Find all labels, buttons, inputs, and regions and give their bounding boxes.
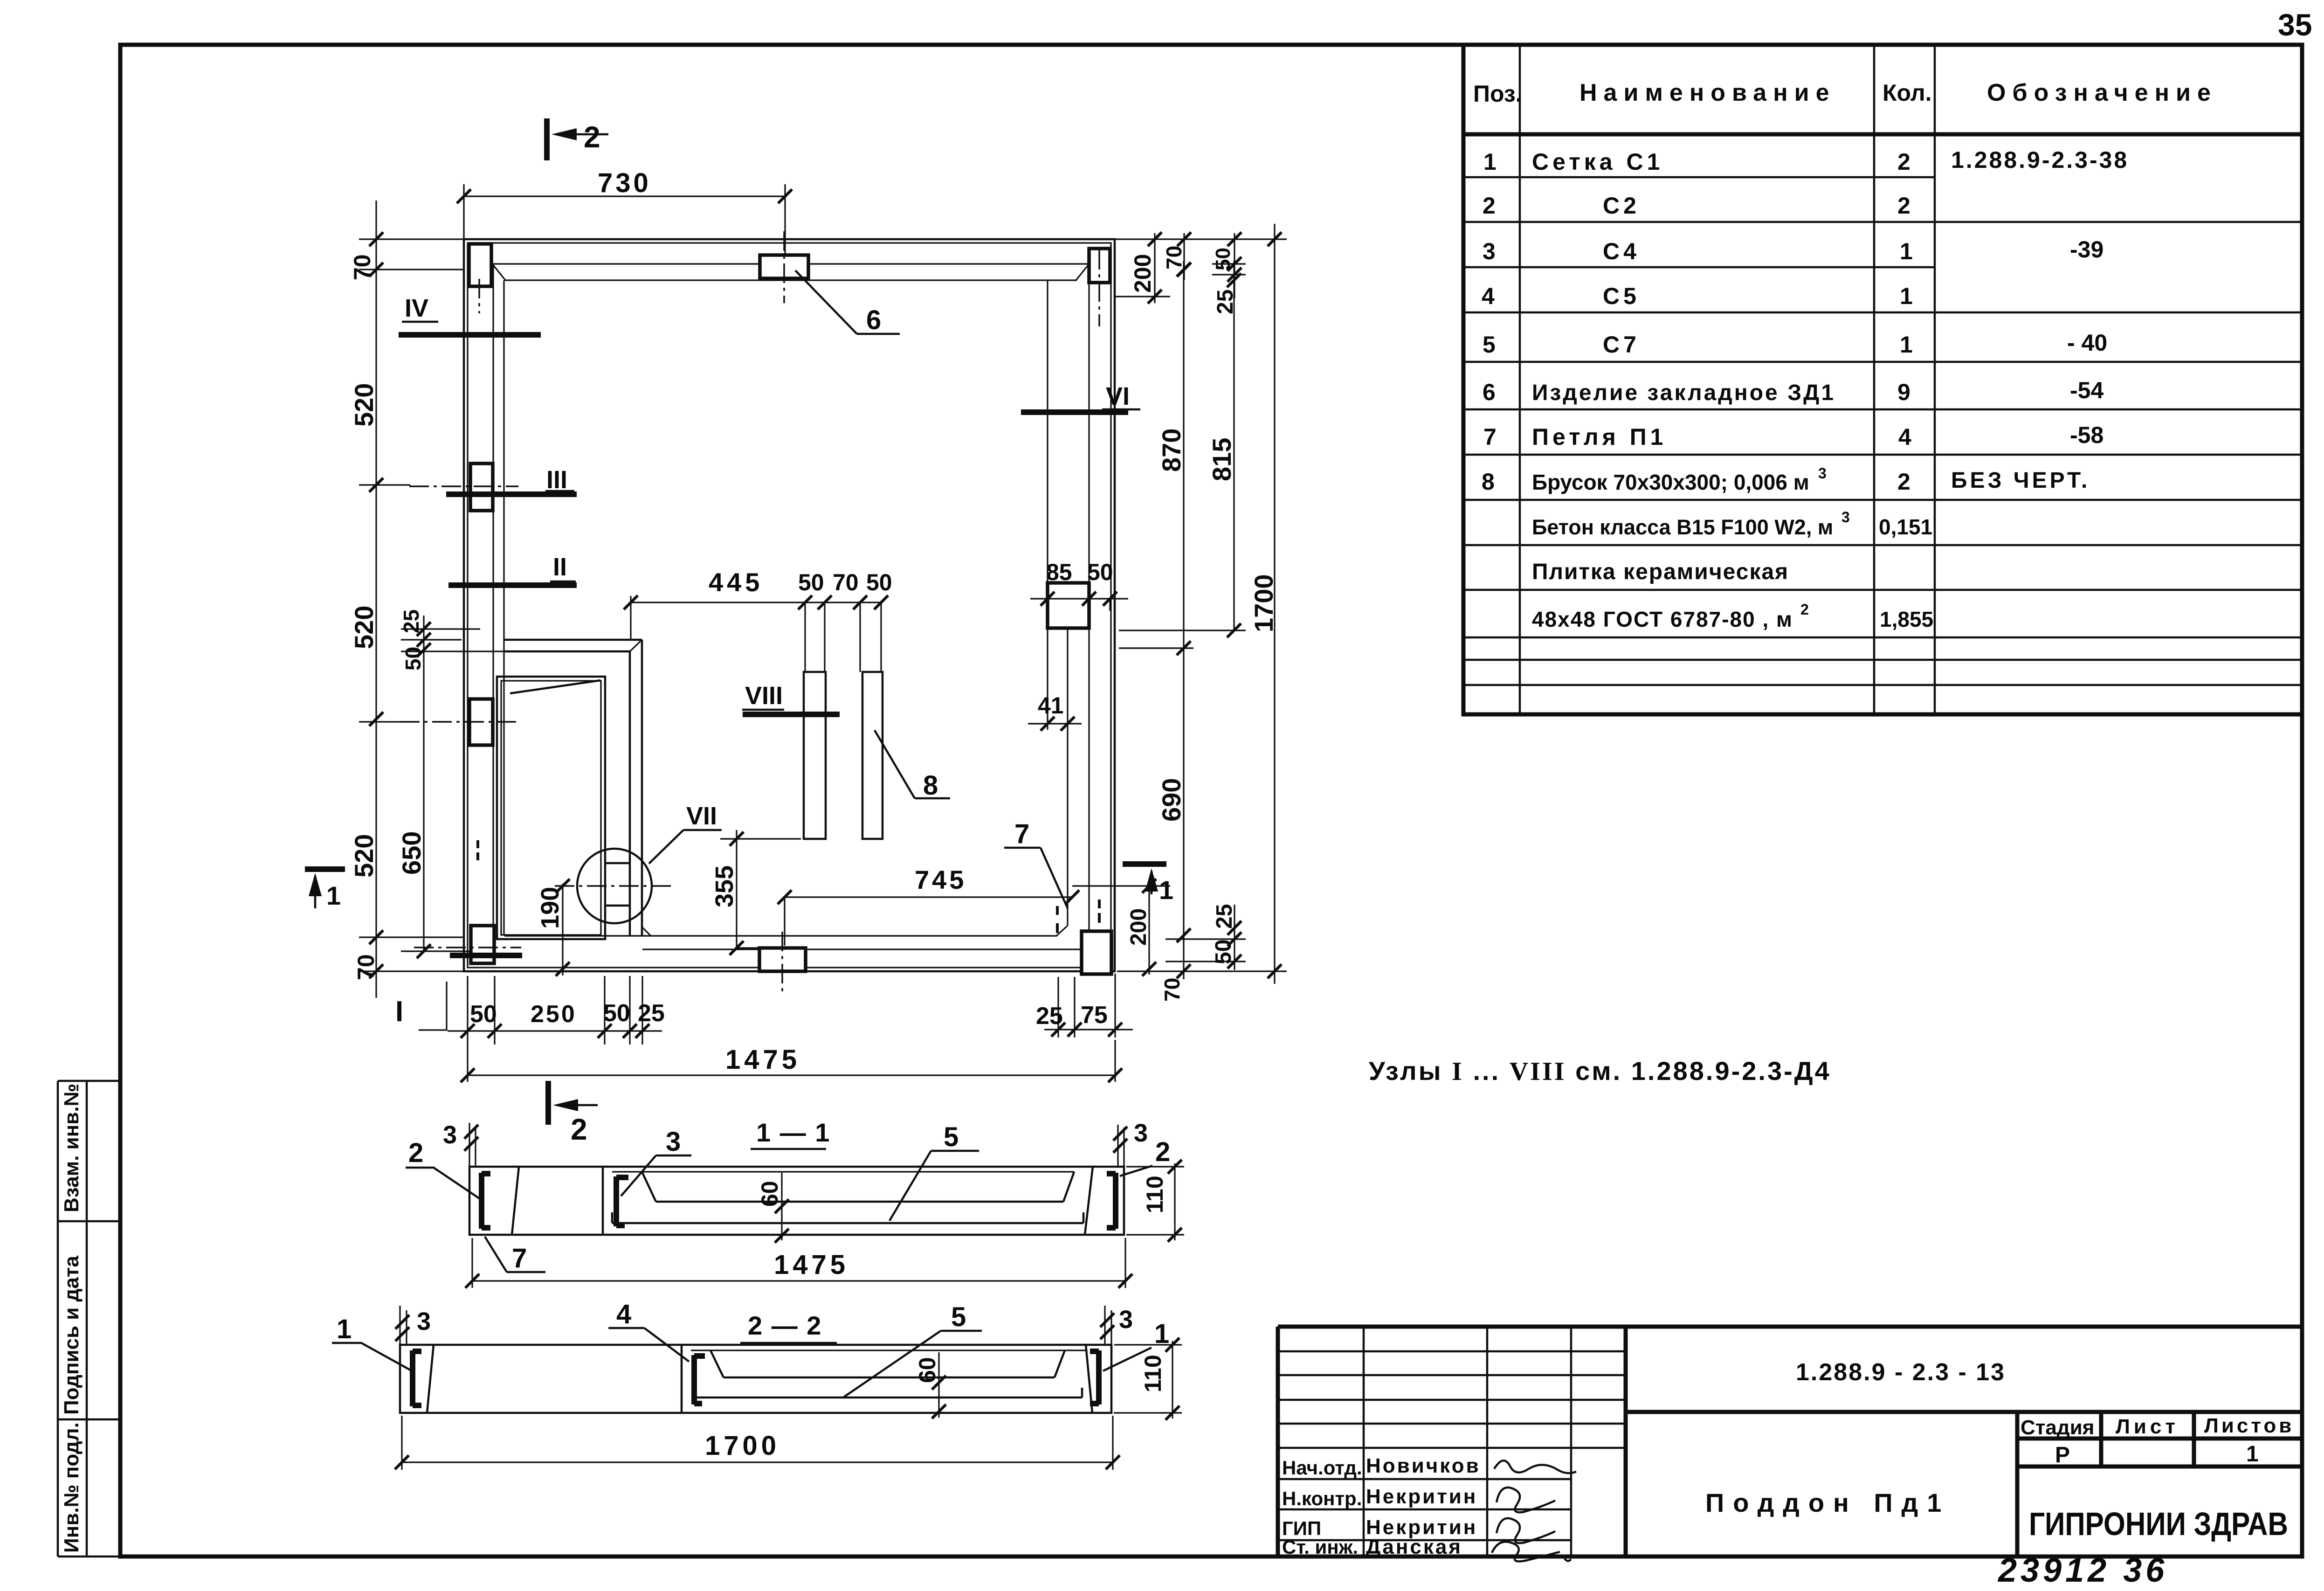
basin right chamfer 22 [1055, 1350, 1065, 1377]
svg-text:Нач.отд.: Нач.отд. [1282, 1457, 1362, 1479]
title block small table grid [1278, 1327, 1626, 1556]
svg-text:4: 4 [616, 1299, 631, 1329]
callout line VIII [743, 712, 840, 717]
section mark 2 top arrow [558, 133, 608, 136]
dim 1700 [1115, 224, 1287, 984]
NOTES [1369, 1056, 1831, 1086]
corner chamfer top-left [492, 264, 505, 280]
label 5 underline leader [890, 1151, 979, 1221]
svg-text:4: 4 [1898, 424, 1911, 450]
svg-text:25: 25 [399, 609, 423, 633]
wall outer face inner stroke [468, 243, 1111, 968]
svg-text:Плитка керамическая: Плитка керамическая [1532, 560, 1789, 584]
dim 85 50 right [1030, 583, 1128, 628]
svg-text:7: 7 [1014, 819, 1029, 849]
label 3 mid underline leader [621, 1155, 691, 1196]
loop P1 marks right wall [1056, 906, 1059, 933]
svg-text:С5: С5 [1603, 283, 1640, 309]
left end block slant [512, 1167, 519, 1235]
signature 4 [1492, 1542, 1571, 1561]
svg-text:С2: С2 [1603, 193, 1640, 219]
PLAN-DIMS [349, 168, 1287, 1082]
mesh C7 bottom line 22 [694, 1388, 1082, 1397]
svg-text:445: 445 [709, 567, 763, 597]
mid partition line [602, 1167, 604, 1235]
door frame inner [501, 681, 601, 935]
svg-text:I: I [395, 996, 403, 1028]
svg-text:110: 110 [1140, 1355, 1166, 1392]
basin right chamfer [1063, 1172, 1074, 1202]
svg-text:50: 50 [470, 1001, 497, 1028]
corner chamfer bottom-right [1056, 926, 1068, 936]
bottom wall rim line [642, 948, 1089, 950]
svg-text:50: 50 [1212, 248, 1234, 270]
label 5 underline leader 22 [844, 1331, 982, 1397]
dim 1700 sec22 [402, 1416, 1113, 1470]
stamp column box [58, 1081, 120, 1556]
leader 6 [795, 270, 857, 334]
center line through B9 [781, 932, 783, 994]
svg-text:- 40: - 40 [2067, 330, 2107, 356]
section mark 2 top bar [544, 118, 550, 160]
left chain ticks [369, 232, 383, 978]
top wall rim line [492, 263, 1089, 264]
basin left chamfer 22 [710, 1350, 724, 1377]
section mark 1 left bar [305, 866, 345, 872]
label I bracket [419, 982, 447, 1030]
basin rim line [612, 1171, 1074, 1172]
dim 815 [1119, 261, 1246, 630]
section 2-2 body outline [400, 1345, 1111, 1413]
svg-text:3: 3 [417, 1307, 431, 1335]
svg-text:1475: 1475 [725, 1045, 800, 1075]
svg-text:70: 70 [349, 254, 375, 280]
svg-text:2: 2 [1897, 193, 1910, 219]
svg-text:200: 200 [1130, 254, 1156, 293]
label 1 right leader [1103, 1348, 1152, 1371]
svg-text:2 — 2: 2 — 2 [748, 1311, 822, 1340]
right end block slant 22 [1086, 1345, 1092, 1413]
right end bar C2 [1107, 1173, 1116, 1229]
svg-text:60: 60 [914, 1357, 940, 1383]
svg-text:Сетка С1: Сетка С1 [1532, 149, 1663, 175]
dim 200 bottom-right [1072, 886, 1170, 975]
svg-text:41: 41 [1038, 692, 1064, 719]
callout line III [446, 491, 577, 497]
mid hook bar C4 [616, 1176, 628, 1226]
svg-text:1 — 1: 1 — 1 [756, 1118, 830, 1147]
embedded block B1 top-left [469, 244, 491, 286]
svg-text:3: 3 [1483, 238, 1496, 264]
section mark 1 right arrow [1151, 871, 1153, 894]
signature 3 [1496, 1518, 1555, 1543]
svg-text:1.288.9-2.3-38: 1.288.9-2.3-38 [1951, 147, 2129, 173]
svg-text:70: 70 [1162, 246, 1186, 270]
svg-text:8: 8 [923, 770, 938, 801]
svg-text:70: 70 [353, 954, 379, 980]
svg-text:1: 1 [326, 881, 341, 910]
label 7 underline leader [485, 1237, 545, 1272]
svg-text:Листов: Листов [2204, 1414, 2294, 1437]
dim 70 bottom-right [1177, 964, 1191, 978]
partition wall vertical lines [630, 640, 642, 935]
dim 25 75 bottom [1044, 974, 1133, 1038]
callout line IV [399, 332, 541, 338]
svg-text:Петля П1: Петля П1 [1532, 424, 1667, 450]
svg-text:50: 50 [1211, 940, 1236, 964]
corner chamfer top-right [1076, 264, 1089, 280]
callout line VI [1021, 409, 1128, 415]
label VII underline [683, 829, 722, 831]
svg-text:Стадия: Стадия [2021, 1416, 2094, 1439]
svg-text:Поз.: Поз. [1473, 81, 1522, 107]
svg-text:III: III [546, 466, 567, 494]
mesh C7 bottom line [612, 1212, 1083, 1223]
svg-text:3: 3 [1818, 465, 1827, 482]
left end block slant [427, 1345, 434, 1413]
table grid [1463, 45, 2302, 714]
svg-text:Обозначение: Обозначение [1987, 79, 2217, 106]
svg-text:Кол.: Кол. [1883, 80, 1931, 106]
svg-text:Лист: Лист [2116, 1415, 2179, 1438]
basin floor 22 [724, 1377, 1055, 1379]
center line through B2 [409, 485, 518, 487]
svg-text:7: 7 [1483, 424, 1496, 450]
title block outer [1278, 1327, 2302, 1556]
svg-text:1: 1 [1483, 149, 1496, 175]
left wall inner face [503, 280, 504, 935]
dim 355 [720, 830, 801, 948]
center line through B5 [783, 231, 785, 303]
callout line I [450, 953, 522, 958]
svg-text:25: 25 [1212, 904, 1237, 929]
signature 1 [1494, 1460, 1576, 1473]
left end bar C1 [413, 1350, 421, 1406]
label II underline [550, 581, 576, 583]
svg-text:Бетон класса В15 F100 W2, м: Бетон класса В15 F100 W2, м [1532, 515, 1833, 539]
svg-text:5: 5 [951, 1302, 966, 1332]
dim 41 [1028, 628, 1082, 730]
svg-text:2: 2 [1800, 601, 1809, 618]
wall outer face [464, 239, 1115, 971]
dim 60 sec22 [938, 1352, 939, 1418]
mid hook bar C5 [694, 1355, 705, 1404]
svg-text:Узлы I ... VIII см. 1.288.9-2.: Узлы I ... VIII см. 1.288.9-2.3-Д4 [1369, 1056, 1831, 1086]
basin floor [656, 1201, 1063, 1203]
callout line II [448, 582, 577, 588]
center line through VII [555, 885, 674, 887]
svg-text:IV: IV [405, 294, 428, 322]
svg-text:690: 690 [1157, 778, 1186, 822]
left dim chain line [375, 201, 377, 998]
svg-text:Н.контр.: Н.контр. [1282, 1487, 1362, 1509]
svg-text:Поддон Пд1: Поддон Пд1 [1705, 1488, 1950, 1517]
svg-text:1: 1 [337, 1314, 352, 1344]
svg-text:С4: С4 [1603, 238, 1640, 264]
svg-text:Некритин: Некритин [1366, 1485, 1477, 1508]
svg-text:745: 745 [915, 865, 966, 894]
section mark 1 left arrow [314, 876, 317, 908]
dim 190 [562, 884, 563, 975]
svg-text:50: 50 [603, 1000, 630, 1027]
svg-text:35: 35 [2278, 7, 2312, 42]
bottom wall inner face [504, 935, 1057, 936]
loop P1 marks right wall upper [1098, 899, 1101, 923]
svg-text:2: 2 [408, 1138, 423, 1168]
right wall inner face upper [1047, 280, 1048, 583]
loop P1 marks left wall [476, 840, 479, 860]
svg-text:6: 6 [866, 305, 881, 335]
dim 60 sec11 [781, 1173, 782, 1240]
embedded block B8 bottom-right [1082, 931, 1111, 974]
svg-text:50: 50 [401, 647, 425, 671]
svg-text:520: 520 [349, 383, 379, 427]
right wall rim line [1088, 264, 1090, 949]
svg-text:110: 110 [1142, 1176, 1168, 1213]
svg-text:2: 2 [1155, 1137, 1170, 1167]
leader 7 [1041, 848, 1068, 908]
right end bar C1 [1090, 1350, 1099, 1404]
svg-text:1475: 1475 [774, 1250, 849, 1280]
label VIII underline [742, 709, 784, 711]
svg-text:1: 1 [1900, 238, 1913, 264]
dim 650 [401, 616, 504, 951]
svg-text:4: 4 [1482, 283, 1495, 309]
svg-text:520: 520 [349, 606, 379, 649]
svg-text:48х48 ГОСТ 6787-80 , м: 48х48 ГОСТ 6787-80 , м [1532, 607, 1793, 631]
svg-text:1.288.9 - 2.3 - 13: 1.288.9 - 2.3 - 13 [1796, 1359, 2006, 1386]
svg-text:3: 3 [1134, 1119, 1148, 1147]
dim 25 50 left [401, 629, 480, 640]
LEFT-STAMP [58, 1081, 120, 1556]
embedded block B6 top-right [1089, 249, 1110, 283]
svg-text:3: 3 [1841, 509, 1850, 526]
svg-text:С7: С7 [1603, 332, 1640, 358]
section mark 1 right bar [1123, 861, 1166, 867]
left chain extensions [359, 239, 464, 971]
svg-text:-54: -54 [2070, 377, 2103, 403]
svg-text:Данская: Данская [1366, 1536, 1462, 1558]
svg-text:9: 9 [1897, 379, 1910, 405]
label VI underline [1102, 408, 1140, 411]
svg-text:815: 815 [1207, 438, 1236, 481]
svg-text:Инв.№ подл.: Инв.№ подл. [60, 1422, 83, 1553]
svg-text:190: 190 [536, 887, 564, 929]
partition bottom chamfer [642, 927, 651, 936]
TITLE-BLOCK [1278, 1327, 2302, 1589]
embedded block B7 right [1048, 583, 1089, 628]
section 1-1 title underline [751, 1148, 826, 1150]
dim 730 [464, 184, 785, 255]
label 2 left underline leader [406, 1168, 479, 1198]
svg-text:-58: -58 [2070, 422, 2103, 448]
leader VII [649, 830, 683, 864]
svg-text:70: 70 [833, 569, 859, 595]
top wall inner face [504, 279, 1077, 281]
svg-text:1: 1 [2246, 1442, 2259, 1466]
title block right grid [1626, 1412, 2302, 1556]
svg-text:60: 60 [757, 1181, 783, 1207]
svg-text:VIII: VIII [745, 682, 783, 710]
dim 70 top-right [1183, 233, 1185, 280]
svg-text:2: 2 [584, 120, 600, 154]
svg-text:1: 1 [1900, 332, 1913, 358]
brusok bar 8b [862, 672, 883, 839]
leader 8 [875, 730, 915, 798]
dim 870 [1119, 261, 1193, 648]
label 8 underline [915, 797, 950, 800]
svg-text:3: 3 [1119, 1306, 1133, 1334]
label III underline [545, 490, 574, 492]
svg-text:Р: Р [2055, 1443, 2070, 1467]
PLAN-VIEW [305, 118, 1173, 1030]
basin rim line 22 [691, 1349, 1086, 1351]
svg-text:II: II [553, 553, 567, 581]
brusok bar 8a [804, 672, 826, 839]
mid support line [681, 1345, 683, 1413]
svg-text:1: 1 [1900, 283, 1913, 309]
center line through B6 [1098, 250, 1100, 326]
center line through B1 [478, 279, 480, 313]
section mark 2 bar [545, 1081, 551, 1125]
embedded block B3 left [469, 699, 493, 745]
left wall rim line [492, 264, 494, 926]
svg-text:70: 70 [1160, 978, 1184, 1002]
svg-text:VI: VI [1106, 382, 1130, 410]
dim 110 sec22 [1114, 1341, 1182, 1418]
svg-text:85: 85 [1046, 559, 1072, 585]
dim 745 [785, 897, 1072, 946]
section mark 2 arrow [559, 1104, 598, 1107]
svg-text:355: 355 [710, 865, 738, 907]
svg-text:1: 1 [1159, 875, 1173, 905]
right end block slant [1085, 1167, 1093, 1235]
embedded block B4 bottom-left [471, 926, 494, 963]
svg-text:0,151: 0,151 [1879, 515, 1932, 539]
SECTION-1-1 [406, 1081, 1184, 1288]
svg-text:75: 75 [1081, 1002, 1108, 1029]
svg-text:Новичков: Новичков [1366, 1454, 1481, 1477]
embedded block B5 top-middle [760, 255, 808, 278]
svg-text:25: 25 [1036, 1003, 1063, 1030]
svg-text:50: 50 [866, 569, 892, 595]
svg-text:Взам. инв.№: Взам. инв.№ [60, 1084, 83, 1212]
center line through B3 [400, 721, 518, 723]
section 2-2 title underline [740, 1342, 837, 1344]
svg-text:1700: 1700 [1249, 574, 1278, 632]
svg-text:Изделие закладное ЗД1: Изделие закладное ЗД1 [1532, 380, 1835, 405]
dim 200 top-right [1115, 233, 1170, 303]
signature 2 [1496, 1487, 1555, 1512]
partition wall top lines [504, 640, 642, 651]
center line through B4 [414, 947, 521, 948]
svg-text:3: 3 [443, 1121, 457, 1149]
detail VII ladder bars [606, 863, 630, 906]
svg-text:БЕЗ ЧЕРТ.: БЕЗ ЧЕРТ. [1951, 468, 2090, 493]
svg-text:730: 730 [598, 168, 651, 198]
svg-text:50: 50 [1087, 559, 1113, 585]
label 1 left underline leader [332, 1343, 410, 1370]
right wall inner face lower [1067, 628, 1068, 926]
svg-text:1700: 1700 [705, 1431, 780, 1461]
svg-text:6: 6 [1483, 379, 1496, 405]
partition corner chamfer [630, 640, 642, 651]
svg-text:2: 2 [1897, 469, 1910, 495]
svg-text:5: 5 [1483, 332, 1496, 358]
detail circle VII [577, 849, 652, 923]
basin left chamfer [642, 1172, 656, 1202]
svg-text:50: 50 [798, 569, 824, 595]
dim 110 sec11 [1126, 1163, 1184, 1240]
svg-text:Подпись и дата: Подпись и дата [60, 1256, 83, 1415]
dim 1475 sec11 [472, 1238, 1125, 1288]
svg-text:2: 2 [571, 1113, 587, 1146]
svg-text:Наименование: Наименование [1579, 79, 1836, 106]
label 7 underline [1004, 847, 1041, 849]
dim 1475 plan [468, 1040, 1115, 1082]
dim 25 50 bottom-right [1165, 905, 1246, 970]
svg-text:5: 5 [944, 1122, 959, 1152]
svg-text:-39: -39 [2070, 236, 2103, 263]
SECTION-2-2 [332, 1299, 1182, 1470]
svg-text:Ст. инж.: Ст. инж. [1282, 1536, 1358, 1558]
label IV underline [402, 321, 438, 323]
svg-text:8: 8 [1482, 469, 1495, 495]
left end bar C2 [482, 1173, 490, 1229]
svg-text:250: 250 [531, 1001, 577, 1028]
svg-text:2: 2 [1897, 149, 1910, 175]
svg-text:3: 3 [666, 1127, 681, 1157]
svg-text:ГИПРОНИИ ЗДРАВ: ГИПРОНИИ ЗДРАВ [2029, 1506, 2288, 1542]
svg-text:650: 650 [397, 831, 426, 875]
door frame outer [497, 677, 605, 939]
svg-text:200: 200 [1126, 908, 1151, 946]
dim 50 25 top-right [1212, 233, 1246, 298]
svg-text:VII: VII [686, 802, 717, 830]
svg-text:2: 2 [1483, 193, 1496, 219]
label 4 underline leader [608, 1328, 689, 1362]
door leaf diagonal [510, 680, 600, 693]
svg-text:870: 870 [1157, 429, 1186, 472]
svg-text:25: 25 [638, 1000, 665, 1027]
PARTS-TABLE [1463, 45, 2302, 714]
embedded block B2 left [470, 463, 493, 511]
svg-text:Брусок 70х30х300; 0,006 м: Брусок 70х30х300; 0,006 м [1532, 470, 1809, 494]
svg-text:1,855: 1,855 [1880, 607, 1933, 631]
embedded block B9 bottom-middle [759, 948, 806, 971]
dim 50 250 50 25 bottom [448, 976, 662, 1045]
section 1-1 body outline [469, 1167, 1124, 1235]
svg-text:23912 36: 23912 36 [1997, 1552, 2168, 1589]
label 6 underline [857, 333, 900, 335]
dim 690 [1183, 648, 1184, 979]
svg-text:7: 7 [512, 1243, 527, 1273]
svg-text:520: 520 [349, 834, 379, 878]
dim 445 [631, 596, 881, 672]
